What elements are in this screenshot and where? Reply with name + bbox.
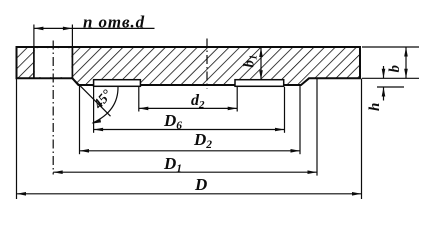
groove right (white rectangle) — [235, 80, 284, 87]
groove left (white rectangle) — [94, 80, 141, 87]
dimension n otv.d : dimension line with arrows — [34, 27, 73, 29]
dimension D6 : extension lines — [93, 87, 95, 133]
svg-text:h: h — [367, 103, 383, 111]
bolt hole (white cut) — [34, 47, 73, 78]
svg-text:D: D — [194, 175, 207, 194]
dimension D1 : line with arrows — [53, 171, 317, 173]
dimension h : outside arrows — [383, 66, 385, 78]
leader shelf under text — [72, 27, 154, 29]
dimension b : line with arrows — [405, 47, 407, 78]
dimension d2 : extension lines — [138, 87, 140, 112]
svg-text:n отв.d: n отв.d — [83, 13, 145, 32]
dimension D2 : extension lines — [79, 86, 81, 154]
svg-text:b: b — [387, 65, 403, 73]
dimension b : extension lines — [362, 46, 419, 48]
bolt hole centerline — [52, 41, 54, 175]
dimension D2 : line with arrows — [80, 150, 301, 152]
dimension b1 : line with arrows — [260, 48, 262, 80]
dimension n otv.d : extension lines — [33, 25, 35, 47]
45 deg arc with arrow — [93, 87, 119, 124]
flange axis centerline — [206, 39, 208, 89]
flange body (hatched cross-section) — [17, 47, 361, 85]
45 deg leader line — [72, 78, 110, 116]
dimension D : line with arrows — [17, 193, 362, 195]
dimension D6 : line with arrows — [94, 129, 285, 131]
dimension D1 : extension line right — [316, 79, 318, 176]
dimension h : extension line at face bottom — [377, 86, 404, 88]
dimension d2 : line with arrows — [139, 107, 237, 109]
dimension D : extension lines — [16, 79, 18, 199]
